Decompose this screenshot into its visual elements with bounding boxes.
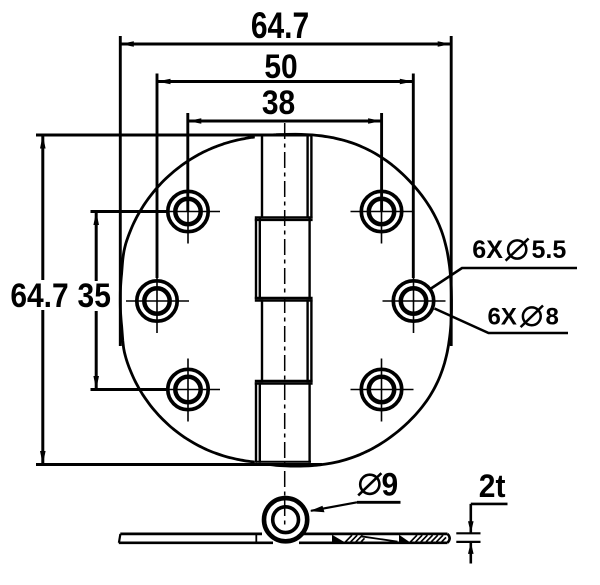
svg-text:9: 9 (382, 466, 399, 502)
svg-text:35: 35 (78, 276, 111, 314)
svg-text:2t: 2t (479, 468, 506, 504)
svg-text:6X: 6X (472, 236, 503, 264)
svg-text:6X: 6X (488, 304, 517, 331)
svg-text:5.5: 5.5 (532, 236, 567, 264)
svg-text:50: 50 (264, 47, 297, 85)
svg-text:64.7: 64.7 (251, 5, 309, 47)
svg-text:8: 8 (546, 304, 559, 331)
svg-text:64.7: 64.7 (10, 276, 68, 314)
svg-text:38: 38 (262, 83, 295, 121)
